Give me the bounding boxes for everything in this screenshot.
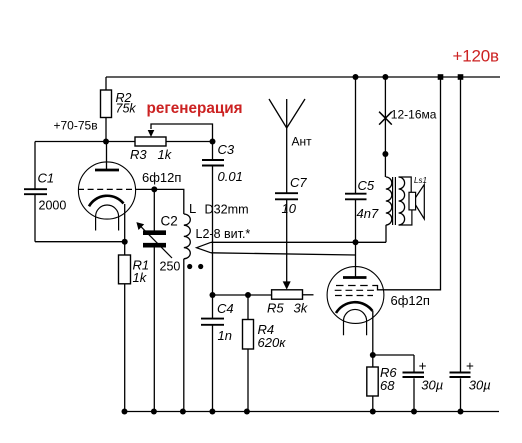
svg-text:3k: 3k (294, 301, 309, 316)
svg-text:C3: C3 (218, 142, 235, 157)
svg-text:L2-8 вит.*: L2-8 вит.* (196, 227, 251, 241)
resistor R5 wiper arrow (283, 281, 291, 289)
node grid junction dot (151, 186, 157, 192)
capacitor C8 electrolytic 30u plates (450, 373, 471, 378)
wire C4 top lead (212, 295, 214, 318)
tube V2 cathode arc (336, 302, 373, 313)
coil tap callout arrowhead (197, 242, 212, 253)
wire grid node to coil top (154, 189, 184, 214)
resistor R3 wiper arrow (148, 130, 155, 137)
svg-text:L: L (189, 201, 196, 216)
wire R5 row left segment (213, 294, 272, 296)
svg-text:620к: 620к (258, 335, 287, 350)
wire bottom ground rail (125, 411, 500, 413)
wire tube1 plate lead (106, 142, 108, 171)
wire tube2 screen grid to rail (373, 77, 441, 290)
tube V2 suppressor grid dashed (336, 285, 373, 287)
tube V2 screen grid dashed (335, 289, 375, 291)
node rail meter junction dot (382, 74, 388, 80)
inductor L winding (184, 214, 191, 259)
wire grid node down to C2 (153, 189, 155, 230)
wire transformer primary top lead with meter line (384, 77, 386, 177)
tube V2 control grid dashed (335, 295, 373, 297)
wire top +120v rail (106, 76, 500, 78)
wire C6 top lead (413, 355, 415, 373)
tube V2 envelope (327, 267, 384, 324)
svg-text:C7: C7 (290, 175, 307, 190)
node rail filter square terminal (458, 74, 464, 80)
wire R4 top lead (247, 295, 249, 320)
wire C6 bottom lead to ground rail (413, 378, 415, 411)
node plate2 junction dot (353, 239, 359, 245)
svg-text:R5: R5 (267, 301, 284, 316)
resistor R1 (119, 255, 131, 284)
capacitor C6 electrolytic 30u plates (403, 373, 425, 378)
svg-text:+: + (466, 359, 474, 374)
svg-text:Ls1: Ls1 (414, 176, 427, 185)
svg-text:68: 68 (380, 378, 395, 393)
node cathode2 junction dot (370, 352, 376, 358)
wire transformer primary bottom lead (385, 225, 387, 242)
wire R2 top lead (105, 77, 107, 90)
node ground rail dots (122, 409, 128, 415)
wire coil tap arrow lower edge to tube2 plate lead (211, 253, 356, 255)
svg-text:2000: 2000 (39, 199, 67, 213)
svg-text:250: 250 (160, 260, 181, 274)
wire C3 top lead (212, 142, 214, 160)
tube V2 plate (343, 276, 367, 279)
svg-text:C5: C5 (358, 178, 375, 193)
wire R6 top lead (372, 355, 374, 367)
transformer primary winding (386, 177, 392, 225)
wire C3 bottom lead down to R5 row (212, 166, 214, 295)
speaker Ls1 (409, 185, 424, 220)
wire R2 bottom lead to node A (105, 118, 107, 142)
capacitor C2 adjustment arrow (136, 222, 172, 258)
wire filter cap C8 bottom lead to ground rail (460, 378, 462, 411)
svg-text:1k: 1k (158, 147, 173, 162)
node C3-C4 junction dot (210, 292, 216, 298)
wire C2 bottom lead to ground rail (153, 248, 155, 412)
wire C1 bottom lead (34, 195, 36, 242)
svg-text:1n: 1n (218, 328, 232, 343)
resistor R5 potentiometer body (272, 290, 303, 299)
svg-text:0.01: 0.01 (218, 169, 243, 184)
wire tube2 cathode lead (372, 311, 374, 355)
wire secondary bottom lead to speaker (399, 210, 412, 225)
inductor L winding-sense dots (187, 264, 192, 269)
node A junction dot (103, 139, 109, 145)
wire R3 right lead to C3 node (166, 141, 213, 143)
capacitor C7 plates (275, 193, 298, 199)
transformer secondary winding (399, 177, 405, 225)
wire node A row to C1 and R3 (35, 141, 135, 143)
capacitor C4 plates (201, 319, 224, 325)
wire coil bottom lead to ground rail (183, 259, 185, 412)
svg-text:30µ: 30µ (469, 378, 491, 393)
capacitor C2 variable plates (143, 233, 166, 246)
wire R1 top lead (124, 242, 126, 255)
resistor R4 (243, 320, 254, 350)
node R4 top junction dot (245, 292, 251, 298)
wire tube1 cathode lead (124, 204, 126, 242)
svg-text:12-16ма: 12-16ма (391, 108, 437, 122)
svg-text:C4: C4 (217, 301, 234, 316)
wire antenna mast to C7 (286, 99, 288, 193)
wire C5 bottom lead to plate node (355, 200, 357, 243)
svg-text:D32mm: D32mm (205, 203, 249, 217)
tube V1 envelope (78, 162, 135, 219)
svg-text:C2: C2 (161, 214, 178, 229)
capacitor C3 plates (202, 160, 224, 166)
node C3 top junction dot (210, 139, 216, 145)
svg-text:Ант: Ант (292, 135, 313, 149)
tube V1 grid dashed (78, 188, 136, 190)
svg-text:4n7: 4n7 (357, 206, 379, 221)
svg-text:10: 10 (282, 201, 297, 216)
node rail screen square terminal (438, 74, 444, 80)
node transformer top junction dot (382, 151, 388, 157)
wire C7 bottom lead to R5 wiper (286, 200, 288, 282)
wire R4 bottom lead to ground rail (247, 349, 249, 412)
transformer core (393, 177, 396, 225)
svg-text:регенерация: регенерация (147, 100, 243, 117)
wire R3 wiper link (151, 124, 213, 142)
wire cathode row C1 to R1 node (35, 241, 125, 243)
resistor R2 (101, 90, 112, 118)
wire R6 bottom lead to ground rail (372, 396, 374, 412)
resistor R6 (367, 367, 378, 396)
svg-text:30µ: 30µ (421, 378, 443, 393)
node cathode1 junction dot (122, 239, 128, 245)
wire R5 right lead to tube2 grid (303, 294, 314, 296)
svg-text:R3: R3 (130, 147, 147, 162)
svg-text:1k: 1k (133, 270, 148, 285)
tube V1 plate (95, 169, 119, 172)
resistor R3 potentiometer body (135, 137, 166, 146)
svg-text:+120в: +120в (453, 47, 499, 66)
antenna (269, 99, 305, 128)
capacitor C5 plates (345, 194, 367, 200)
svg-text:6ф12п: 6ф12п (391, 293, 430, 308)
svg-text:6ф12п: 6ф12п (142, 170, 181, 185)
tube V1 heater (96, 205, 119, 230)
wire tube1 grid to node (136, 188, 155, 190)
wire cathode2 node to C6 (373, 354, 414, 356)
wire C4 bottom lead to ground rail (212, 325, 214, 411)
node rail C5 junction dot (353, 74, 359, 80)
wire R1 bottom lead to ground rail (124, 284, 126, 412)
svg-text:75k: 75k (116, 102, 137, 116)
wire tube2 plate lead (355, 242, 357, 277)
tube V1 cathode arc (89, 196, 124, 207)
wire C5 top lead from rail (355, 77, 357, 193)
wire filter cap C8 top lead from rail (460, 77, 462, 373)
wire coil tap arrow to transformer primary (211, 241, 386, 243)
tube V2 heater (344, 309, 367, 335)
svg-text:C1: C1 (38, 171, 55, 186)
wire secondary top lead to speaker (399, 177, 412, 192)
wire C1 top lead (34, 142, 36, 189)
capacitor C1 plates (24, 189, 47, 194)
meter point X 12-16ma (379, 112, 392, 125)
svg-text:+: + (419, 359, 427, 374)
svg-text:+70-75в: +70-75в (54, 119, 98, 133)
